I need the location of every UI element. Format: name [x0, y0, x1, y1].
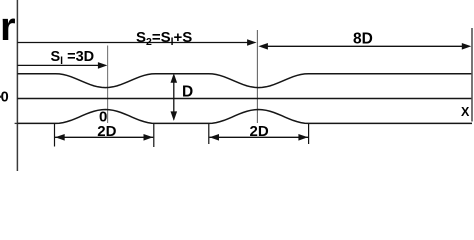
axis tick stub at bottom wall [15, 122, 18, 124]
dimension 2D first: ticks [54, 124, 56, 147]
bottom wall [17, 110, 472, 124]
svg-text:2D: 2D [97, 123, 116, 140]
svg-text:S2=Sl+S: S2=Sl+S [136, 29, 192, 48]
svg-text:r: r [0, 5, 16, 49]
dimension line S2 [17, 42, 253, 44]
throat marker line 1 [107, 46, 109, 124]
dimension line 8D [262, 45, 469, 47]
centerline [17, 98, 472, 100]
fragment of = sign at left edge [0, 96, 3, 98]
svg-text:8D: 8D [353, 30, 373, 47]
dimension line S1 [17, 64, 103, 66]
dimension arrow D [173, 76, 175, 120]
top wall [17, 74, 472, 88]
svg-text:D: D [182, 84, 193, 101]
outlet boundary line [471, 28, 473, 122]
svg-text:X: X [461, 105, 470, 119]
left axis line [16, 0, 18, 171]
svg-text:2D: 2D [250, 123, 269, 140]
svg-text:Sl =3D: Sl =3D [51, 49, 95, 67]
throat marker line 2 [256, 30, 258, 123]
dimension 2D first: line and arrows [55, 136, 153, 138]
dimension 2D second: ticks [208, 124, 210, 144]
dimension 2D second: line and arrows [209, 136, 308, 138]
